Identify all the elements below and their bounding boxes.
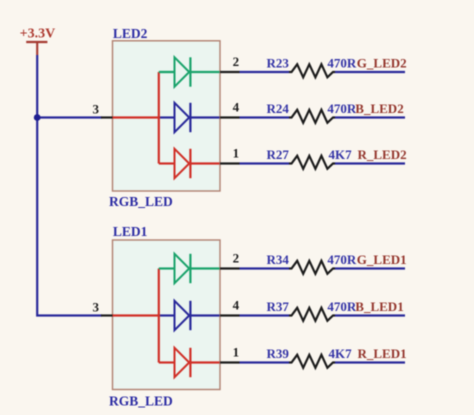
svg-text:470R: 470R: [327, 55, 357, 70]
svg-text:+3.3V: +3.3V: [20, 26, 56, 41]
svg-text:G_LED1: G_LED1: [357, 252, 407, 267]
svg-text:1: 1: [233, 145, 240, 160]
svg-text:LED1: LED1: [113, 224, 148, 239]
svg-text:R_LED2: R_LED2: [358, 147, 407, 162]
svg-text:RGB_LED: RGB_LED: [109, 393, 173, 408]
svg-text:3: 3: [93, 300, 100, 315]
svg-text:4K7: 4K7: [329, 147, 353, 162]
svg-text:R37: R37: [267, 299, 290, 314]
svg-text:R27: R27: [267, 147, 290, 162]
svg-text:B_LED2: B_LED2: [355, 101, 403, 116]
svg-text:2: 2: [233, 250, 240, 265]
svg-text:4: 4: [233, 297, 240, 312]
svg-text:4: 4: [233, 99, 240, 114]
svg-text:R39: R39: [267, 346, 290, 361]
svg-text:470R: 470R: [327, 252, 357, 267]
svg-text:B_LED1: B_LED1: [355, 299, 403, 314]
svg-text:RGB_LED: RGB_LED: [109, 194, 173, 209]
svg-text:470R: 470R: [327, 101, 357, 116]
svg-text:4K7: 4K7: [329, 346, 353, 361]
svg-text:LED2: LED2: [113, 26, 148, 41]
svg-text:G_LED2: G_LED2: [357, 55, 407, 70]
svg-text:R24: R24: [267, 101, 290, 116]
svg-text:3: 3: [93, 102, 100, 117]
svg-text:R_LED1: R_LED1: [358, 346, 407, 361]
svg-text:R23: R23: [267, 56, 290, 71]
svg-text:1: 1: [233, 344, 240, 359]
svg-text:R34: R34: [267, 252, 290, 267]
svg-text:2: 2: [233, 54, 240, 69]
svg-text:470R: 470R: [327, 299, 357, 314]
